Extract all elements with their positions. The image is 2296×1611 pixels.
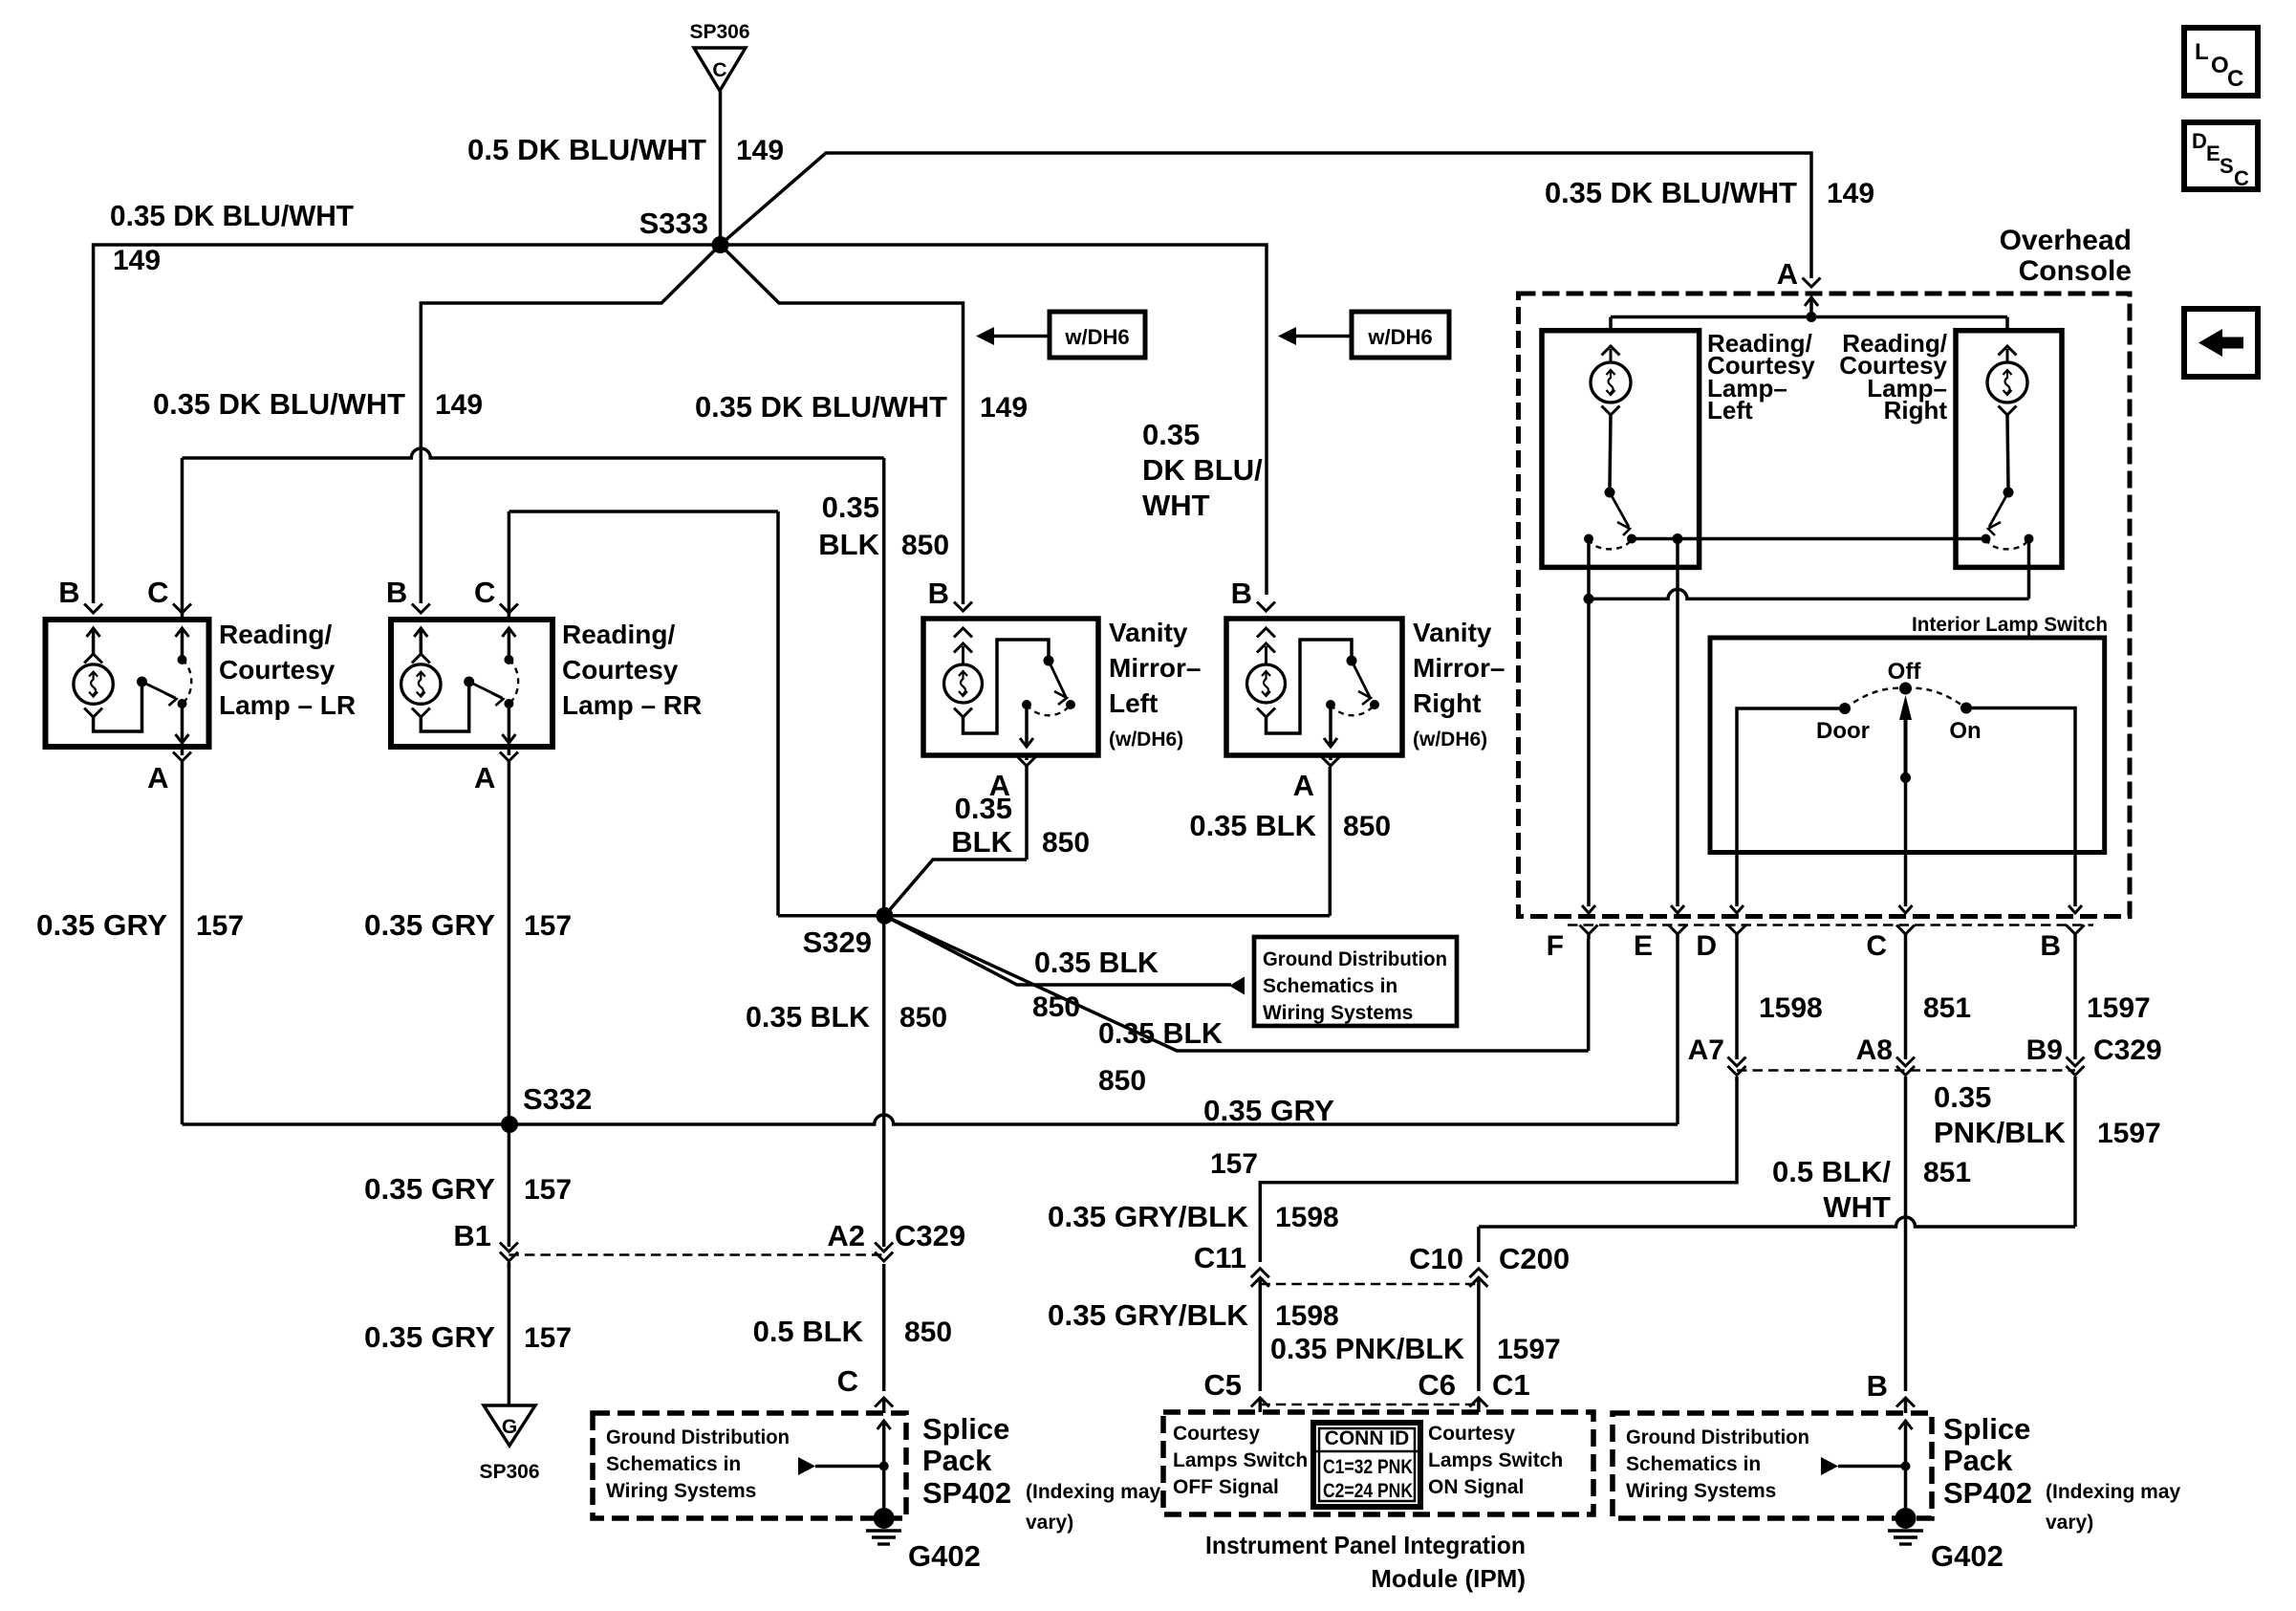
svg-text:S: S	[2220, 154, 2234, 178]
svg-text:Module (IPM): Module (IPM)	[1371, 1564, 1526, 1593]
svg-text:A: A	[474, 761, 495, 795]
wire S329 to console F	[884, 916, 1588, 1051]
wire S329 to vanity right A	[884, 914, 1330, 918]
svg-text:Courtesy: Courtesy	[1428, 1423, 1515, 1445]
svg-text:149: 149	[435, 389, 483, 421]
svg-text:A8: A8	[1856, 1034, 1893, 1066]
svg-text:Pack: Pack	[922, 1444, 992, 1477]
svg-text:Interior Lamp Switch: Interior Lamp Switch	[1912, 614, 2108, 636]
connector row dashed C11-C10	[1260, 1283, 1479, 1285]
svg-text:157: 157	[196, 910, 244, 942]
connector row dashed B1-A2	[509, 1253, 883, 1255]
ground distribution schematics box (S329)	[1254, 937, 1457, 1026]
splice pack SP402 (left) wire and ground G402	[882, 1421, 886, 1467]
arrow into splice (right)	[1821, 1457, 1838, 1475]
svg-text:(Indexing may: (Indexing may	[2046, 1481, 2181, 1503]
svg-text:C1=32 PNK: C1=32 PNK	[1323, 1456, 1413, 1478]
svg-text:Schematics in: Schematics in	[606, 1453, 741, 1475]
svg-text:Right: Right	[1413, 688, 1482, 718]
svg-text:F: F	[1547, 930, 1564, 962]
svg-text:Pack: Pack	[1943, 1444, 2013, 1477]
svg-text:Ground Distribution: Ground Distribution	[1263, 948, 1447, 970]
wire lamp contact tie	[1632, 537, 1986, 541]
wire S333 to vanity mirror right pin B	[721, 245, 1267, 595]
svg-text:0.35 DK BLU/WHT: 0.35 DK BLU/WHT	[110, 199, 354, 232]
wire S329 to ground distribution schematics	[884, 916, 1231, 985]
wire A2 to splice pack C	[882, 1264, 886, 1391]
svg-text:0.35 BLK: 0.35 BLK	[1098, 1016, 1224, 1050]
back-arrow icon box	[2184, 309, 2258, 377]
svg-text:Ground Distribution: Ground Distribution	[606, 1426, 790, 1448]
svg-text:1597: 1597	[2097, 1118, 2161, 1149]
option flag w/DH6 (vanity right)	[1352, 312, 1449, 358]
svg-text:Courtesy: Courtesy	[1173, 1423, 1260, 1445]
reading/courtesy lamp RR	[412, 604, 430, 614]
svg-text:851: 851	[1923, 1157, 1971, 1188]
switch dashed travel arc	[1845, 688, 1906, 708]
connector C329 A7	[1728, 1057, 1746, 1067]
svg-text:0.35 BLK: 0.35 BLK	[746, 1000, 871, 1034]
wire 0.5 DK BLU/WHT 149 (SP306 to S333)	[719, 91, 723, 245]
svg-text:(w/DH6): (w/DH6)	[1109, 729, 1183, 751]
wire C11 to C5	[1259, 1279, 1263, 1391]
svg-text:PNK/BLK: PNK/BLK	[1934, 1116, 2066, 1149]
wire console E drop	[1676, 539, 1679, 907]
svg-text:O: O	[2211, 53, 2229, 78]
CONN ID table	[1313, 1423, 1420, 1507]
svg-text:w/DH6: w/DH6	[1064, 325, 1129, 349]
switch position On	[1960, 703, 1972, 714]
svg-text:Wiring Systems: Wiring Systems	[1263, 1002, 1413, 1024]
svg-text:C: C	[474, 576, 495, 609]
wire S329 down to A2	[882, 916, 886, 1247]
svg-text:D: D	[1696, 930, 1717, 962]
svg-text:WHT: WHT	[1823, 1190, 1891, 1224]
wire C to A8	[1904, 939, 1908, 1059]
vanity mirror right	[1257, 602, 1275, 612]
instrument panel integration module dashed box	[1163, 1412, 1593, 1514]
wire B9 to C10 (hop over 851 wire)	[2073, 1077, 2077, 1227]
svg-text:1597: 1597	[2087, 992, 2151, 1024]
svg-text:0.35 PNK/BLK: 0.35 PNK/BLK	[1270, 1332, 1465, 1365]
wire reading lamp C (LR) to S329 (hop over RR branch)	[181, 458, 184, 619]
svg-text:Off: Off	[1888, 659, 1922, 685]
svg-text:Lamps Switch: Lamps Switch	[1173, 1449, 1308, 1471]
svg-text:Schematics in: Schematics in	[1263, 975, 1397, 997]
console connector A	[1803, 278, 1821, 288]
svg-text:(Indexing may: (Indexing may	[1026, 1481, 1161, 1503]
svg-text:C11: C11	[1194, 1241, 1246, 1274]
LOC reference icon box	[2184, 28, 2258, 96]
switch selector arm	[1899, 695, 1912, 720]
svg-text:A: A	[1293, 769, 1314, 802]
svg-text:0.35: 0.35	[1142, 418, 1200, 451]
svg-text:157: 157	[524, 1174, 572, 1206]
svg-text:B: B	[1231, 577, 1252, 610]
svg-text:B: B	[58, 576, 79, 609]
svg-text:G402: G402	[1931, 1539, 2004, 1573]
svg-text:B: B	[1867, 1369, 1888, 1403]
svg-text:L: L	[2195, 39, 2209, 65]
svg-text:0.35 DK BLU/WHT: 0.35 DK BLU/WHT	[153, 387, 405, 421]
wire A8 to splice pack B	[1904, 1077, 1908, 1391]
svg-text:850: 850	[1098, 1065, 1146, 1097]
wire On contact to B	[1966, 708, 2075, 907]
svg-text:B: B	[2040, 930, 2061, 962]
svg-text:Vanity: Vanity	[1109, 618, 1188, 647]
interior lamp switch box	[1710, 638, 2105, 853]
svg-text:0.35 GRY: 0.35 GRY	[364, 1172, 495, 1206]
svg-text:157: 157	[524, 910, 572, 942]
svg-text:SP306: SP306	[479, 1461, 539, 1483]
svg-text:S333: S333	[639, 207, 708, 240]
svg-text:SP402: SP402	[1943, 1476, 2032, 1510]
svg-text:E: E	[2206, 142, 2220, 165]
svg-text:Reading/: Reading/	[562, 620, 675, 649]
svg-text:851: 851	[1923, 992, 1971, 1024]
svg-text:SP402: SP402	[922, 1476, 1011, 1510]
wire S333 to overhead console pin A	[721, 153, 1812, 278]
svg-text:C5: C5	[1203, 1368, 1242, 1402]
svg-text:Splice: Splice	[1943, 1412, 2030, 1446]
svg-text:ON Signal: ON Signal	[1428, 1476, 1524, 1498]
svg-text:C10: C10	[1409, 1242, 1463, 1275]
svg-text:S332: S332	[523, 1082, 592, 1116]
svg-text:S329: S329	[803, 925, 872, 959]
svg-text:0.35: 0.35	[822, 490, 879, 524]
arrow into splice (left)	[798, 1457, 815, 1475]
wire S332 horizontal (hop over BLK 850)	[183, 1115, 1679, 1124]
svg-text:E: E	[1634, 930, 1653, 962]
svg-text:157: 157	[524, 1322, 572, 1354]
switch position Door	[1839, 703, 1851, 714]
svg-text:B: B	[928, 577, 949, 610]
svg-text:vary): vary)	[2046, 1512, 2093, 1534]
svg-text:149: 149	[736, 135, 784, 166]
splice S329	[876, 907, 893, 925]
svg-text:D: D	[2192, 129, 2207, 153]
wire S329 to vanity left A	[884, 860, 1027, 916]
svg-text:On: On	[1949, 718, 1981, 744]
wire C10 to C1	[1477, 1279, 1481, 1391]
svg-text:BLK: BLK	[951, 825, 1012, 859]
svg-text:0.35 GRY: 0.35 GRY	[364, 1320, 495, 1354]
connector C329 A8	[1896, 1057, 1915, 1067]
wire S333 to reading lamp LR pin B	[94, 245, 721, 603]
svg-text:1597: 1597	[1497, 1334, 1561, 1365]
wire A7 to C11	[1260, 1078, 1737, 1262]
svg-text:Overhead: Overhead	[2000, 225, 2132, 256]
splice pack SP402 (right) wire and ground G402	[1904, 1421, 1908, 1467]
svg-text:0.35 GRY/BLK: 0.35 GRY/BLK	[1048, 1200, 1249, 1233]
console reading/courtesy lamp right	[1956, 331, 2062, 568]
svg-text:Lamps Switch: Lamps Switch	[1428, 1449, 1563, 1471]
svg-text:C6: C6	[1418, 1368, 1456, 1402]
svg-text:850: 850	[904, 1317, 952, 1348]
svg-text:0.35 DK BLU/WHT: 0.35 DK BLU/WHT	[1545, 176, 1797, 209]
svg-text:149: 149	[980, 392, 1028, 424]
wire LR lamp A to S332	[181, 761, 184, 1124]
svg-text:850: 850	[1343, 811, 1391, 842]
svg-text:C2=24 PNK: C2=24 PNK	[1323, 1480, 1413, 1502]
svg-text:149: 149	[1827, 178, 1874, 209]
svg-text:Wiring Systems: Wiring Systems	[606, 1480, 756, 1502]
svg-text:WHT: WHT	[1142, 489, 1210, 522]
svg-text:Mirror–: Mirror–	[1413, 653, 1505, 683]
wire lower tie (hop over E)	[1589, 589, 2029, 599]
wire right-contact to lower tie	[2027, 539, 2031, 599]
svg-text:149: 149	[113, 245, 161, 276]
svg-text:Mirror–: Mirror–	[1109, 653, 1201, 683]
svg-text:C200: C200	[1499, 1242, 1570, 1275]
svg-text:C: C	[1866, 930, 1887, 962]
svg-text:B1: B1	[453, 1219, 491, 1252]
svg-text:0.35: 0.35	[1934, 1080, 1991, 1114]
svg-text:A: A	[147, 761, 168, 795]
connector row dashed A7-B9	[1737, 1069, 2075, 1071]
svg-text:0.35 DK BLU/WHT: 0.35 DK BLU/WHT	[695, 390, 947, 424]
svg-text:Courtesy: Courtesy	[562, 655, 679, 685]
svg-text:Instrument Panel Integration: Instrument Panel Integration	[1205, 1531, 1526, 1559]
vanity mirror left	[954, 602, 972, 612]
svg-text:Left: Left	[1109, 688, 1158, 718]
svg-text:Door: Door	[1816, 718, 1870, 744]
console reading/courtesy lamp left	[1542, 331, 1700, 568]
svg-text:A: A	[1777, 257, 1798, 291]
svg-text:850: 850	[1042, 827, 1090, 859]
svg-text:Lamp – RR: Lamp – RR	[562, 690, 702, 720]
svg-text:w/DH6: w/DH6	[1367, 325, 1432, 349]
svg-text:157: 157	[1210, 1148, 1258, 1180]
svg-text:vary): vary)	[1026, 1512, 1073, 1534]
svg-text:C: C	[2234, 166, 2249, 190]
svg-text:C: C	[712, 59, 726, 81]
svg-text:Splice: Splice	[922, 1412, 1009, 1446]
svg-text:C: C	[2227, 66, 2243, 92]
console bottom connectors (arrows and chevrons)	[1582, 905, 1595, 913]
svg-text:0.35 BLK: 0.35 BLK	[1189, 809, 1316, 842]
connector row dashed C5-C1	[1260, 1404, 1479, 1405]
option flag w/DH6 (vanity left)	[1050, 312, 1145, 358]
svg-text:850: 850	[901, 530, 949, 561]
ground distribution dashed box (left)	[593, 1413, 906, 1518]
svg-text:C329: C329	[895, 1219, 965, 1252]
console connector row dashed line	[1568, 924, 2093, 925]
wire Door contact to D	[1737, 708, 1845, 906]
reading/courtesy lamp LR	[84, 604, 102, 614]
svg-text:C: C	[147, 576, 168, 609]
wire D to A7	[1735, 939, 1739, 1059]
svg-text:0.35 BLK: 0.35 BLK	[1034, 946, 1159, 979]
svg-text:Ground Distribution: Ground Distribution	[1626, 1426, 1809, 1448]
svg-text:OFF Signal: OFF Signal	[1173, 1476, 1279, 1498]
svg-text:C: C	[837, 1364, 858, 1398]
svg-text:1598: 1598	[1275, 1300, 1339, 1332]
wire reading lamp C (RR) to S329	[508, 512, 511, 619]
svg-text:Reading/: Reading/	[219, 620, 332, 649]
svg-text:B9: B9	[2026, 1034, 2063, 1066]
svg-text:Left: Left	[1707, 396, 1753, 425]
svg-text:0.35: 0.35	[955, 792, 1012, 825]
wire B1 to SP306 G	[508, 1264, 511, 1405]
svg-text:0.35 GRY/BLK: 0.35 GRY/BLK	[1048, 1298, 1249, 1332]
svg-text:0.35 GRY: 0.35 GRY	[36, 908, 167, 942]
connector C329 B9	[2067, 1057, 2085, 1067]
svg-text:BLK: BLK	[818, 528, 879, 561]
svg-text:G: G	[502, 1416, 517, 1438]
svg-text:C329: C329	[2093, 1034, 2162, 1066]
svg-text:A7: A7	[1688, 1034, 1724, 1066]
svg-text:B: B	[386, 576, 407, 609]
svg-text:CONN ID: CONN ID	[1325, 1427, 1410, 1449]
svg-text:Wiring Systems: Wiring Systems	[1626, 1480, 1776, 1502]
svg-text:850: 850	[899, 1002, 947, 1034]
wire RR lamp A down	[508, 761, 511, 1247]
console top internal wire	[1611, 316, 2007, 319]
splice S333	[712, 236, 729, 253]
svg-text:Console: Console	[2019, 255, 2132, 287]
svg-text:C1: C1	[1492, 1368, 1530, 1402]
svg-text:0.5 BLK: 0.5 BLK	[753, 1315, 864, 1348]
wire S333 to vanity mirror left pin B	[721, 245, 964, 604]
wire B to B9	[2073, 939, 2077, 1059]
svg-text:0.35 GRY: 0.35 GRY	[364, 908, 495, 942]
wire S333 to reading lamp RR pin B	[421, 245, 720, 603]
svg-text:DK BLU/: DK BLU/	[1142, 453, 1263, 487]
svg-text:Schematics in: Schematics in	[1626, 1453, 1761, 1475]
splice S332	[501, 1116, 518, 1133]
splice pack SP306 connector G (bottom)	[484, 1405, 535, 1446]
svg-text:Courtesy: Courtesy	[219, 655, 336, 685]
svg-text:SP306: SP306	[689, 21, 749, 43]
svg-text:G402: G402	[908, 1539, 981, 1573]
overhead console dashed boundary	[1519, 294, 2131, 917]
DESC reference icon box	[2184, 122, 2258, 189]
svg-text:(w/DH6): (w/DH6)	[1413, 729, 1487, 751]
wire console F drop	[1587, 539, 1591, 599]
svg-text:0.5 DK BLU/WHT: 0.5 DK BLU/WHT	[467, 133, 706, 166]
ground distribution dashed box (right)	[1613, 1413, 1932, 1518]
svg-text:A2: A2	[827, 1219, 865, 1252]
svg-text:Lamp – LR: Lamp – LR	[219, 690, 356, 720]
svg-text:Right: Right	[1884, 396, 1948, 425]
svg-text:0.5 BLK/: 0.5 BLK/	[1772, 1155, 1891, 1188]
svg-text:1598: 1598	[1275, 1202, 1339, 1233]
svg-text:0.35 GRY: 0.35 GRY	[1203, 1094, 1334, 1127]
svg-text:1598: 1598	[1759, 992, 1823, 1024]
svg-text:Vanity: Vanity	[1413, 618, 1492, 647]
